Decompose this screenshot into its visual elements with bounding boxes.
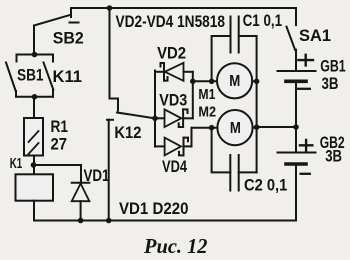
node K12/VD3 junction <box>152 116 158 122</box>
svg-text:M1: M1 <box>198 86 215 103</box>
svg-text:27: 27 <box>51 135 68 154</box>
node M1 wire junction <box>190 79 196 85</box>
node SB1/K11 bottom junction <box>32 94 38 100</box>
wire diode-block left bracket <box>154 71 156 147</box>
svg-text:M: M <box>229 73 240 90</box>
motor M2 <box>217 110 252 145</box>
svg-text:SA1: SA1 <box>299 26 331 45</box>
node M2 right junction <box>254 124 260 130</box>
node SB2/SB1 junction <box>32 52 38 58</box>
wire top rail <box>71 7 296 9</box>
svg-text:Рис. 12: Рис. 12 <box>143 234 208 258</box>
svg-text:3B: 3B <box>325 147 342 166</box>
wire diode-block right bracket <box>192 72 194 119</box>
node top rail junction <box>107 5 113 11</box>
svg-text:M: M <box>230 120 241 137</box>
svg-text:SB2: SB2 <box>53 29 84 48</box>
svg-text:VD2-VD4 1N5818: VD2-VD4 1N5818 <box>116 12 226 31</box>
relay contact K11 <box>44 63 54 97</box>
diode VD4 (Schottky, points right) <box>155 128 192 156</box>
wire M2 feed <box>192 127 218 129</box>
pushbutton SB2 <box>34 8 79 55</box>
node C2 bracket junction <box>209 125 215 131</box>
node battery midpoint junction <box>293 124 299 130</box>
battery GB1 minus sign <box>298 88 310 90</box>
battery GB2 <box>278 140 316 164</box>
capacitor C1 <box>212 17 257 82</box>
switch SA1 <box>287 8 297 71</box>
diode VD3 (Schottky, points right) <box>155 109 193 127</box>
wire junction to VD1 <box>34 164 82 166</box>
wire GB2 to bottom rail <box>295 164 297 221</box>
svg-text:M2: M2 <box>198 104 216 121</box>
diode VD2 (Schottky, points left) <box>155 63 193 81</box>
svg-text:K11: K11 <box>53 67 83 86</box>
battery GB1 <box>278 55 316 82</box>
node VD1 bottom junction <box>78 218 84 224</box>
node M1 right junction <box>254 79 260 85</box>
svg-text:VD4: VD4 <box>162 157 187 176</box>
wire K1 to bottom rail <box>33 201 35 221</box>
wire M2 right lead <box>253 127 257 129</box>
diode VD1 <box>72 165 90 221</box>
svg-text:K12: K12 <box>114 123 141 142</box>
relay contact K12 <box>107 8 155 221</box>
battery GB2 minus sign <box>301 173 310 175</box>
wire M1 right lead <box>252 80 256 82</box>
relay coil K1 <box>16 174 54 200</box>
resistor R1 <box>24 118 43 156</box>
pushbutton SB1 <box>6 63 16 97</box>
wire bottom rail <box>34 220 296 222</box>
wire GB1 to GB2 <box>295 81 297 152</box>
wire SB1/K11 bottom bracket <box>17 96 54 98</box>
svg-text:C2 0,1: C2 0,1 <box>244 176 287 195</box>
capacitor C2 <box>212 128 257 191</box>
node C1 bracket junction <box>209 79 215 85</box>
wire right rail <box>256 36 258 172</box>
node K12 bottom junction <box>106 218 112 224</box>
svg-text:SB1: SB1 <box>17 66 44 85</box>
svg-text:K1: K1 <box>10 155 23 172</box>
wire M1 feed <box>193 80 217 82</box>
svg-text:VD2: VD2 <box>157 44 186 63</box>
svg-text:VD1 D220: VD1 D220 <box>119 199 189 218</box>
svg-text:VD1: VD1 <box>84 166 110 185</box>
svg-text:C1 0,1: C1 0,1 <box>243 11 283 30</box>
svg-text:R1: R1 <box>51 117 69 136</box>
motor M1 <box>217 63 252 98</box>
wire to R1 <box>33 97 35 118</box>
wire rail to battery midpoint <box>257 126 296 128</box>
node R1/K1/VD1 junction <box>31 162 37 168</box>
svg-text:3B: 3B <box>322 74 339 93</box>
svg-text:GB1: GB1 <box>320 57 346 76</box>
svg-text:VD3: VD3 <box>159 91 187 110</box>
wire SB1/K11 top bracket <box>17 55 54 62</box>
wire R1 to K1 <box>33 156 35 175</box>
